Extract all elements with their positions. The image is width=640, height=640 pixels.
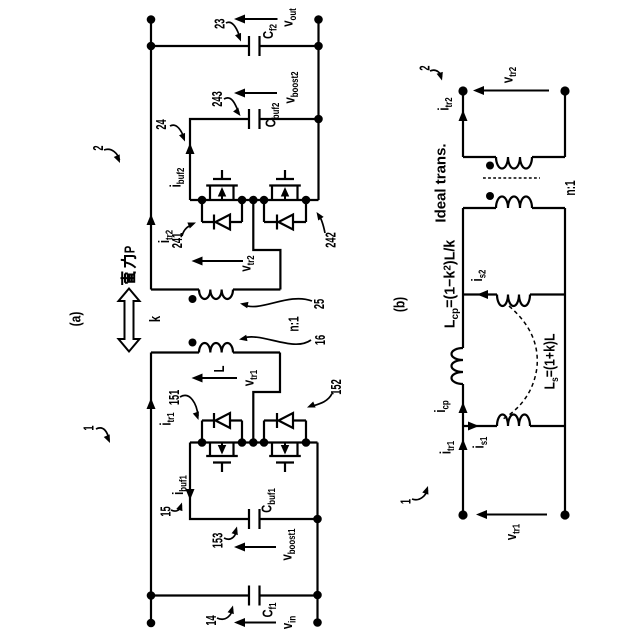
- svg-text:151: 151: [166, 390, 183, 406]
- svg-text:L: L: [210, 366, 227, 373]
- svg-text:n:1: n:1: [284, 316, 302, 331]
- svg-text:24: 24: [153, 119, 170, 129]
- svg-text:152: 152: [328, 379, 345, 395]
- svg-text:153: 153: [209, 533, 226, 549]
- svg-text:15: 15: [157, 506, 174, 516]
- svg-text:14: 14: [203, 615, 220, 625]
- svg-text:25: 25: [311, 299, 328, 309]
- svg-text:Ideal trans.: Ideal trans.: [433, 143, 450, 222]
- svg-text:1: 1: [397, 499, 414, 504]
- svg-text:n:1: n:1: [561, 180, 579, 195]
- svg-text:2: 2: [416, 65, 433, 70]
- svg-text:P: P: [121, 246, 138, 254]
- svg-text:2: 2: [90, 145, 107, 150]
- svg-text:16: 16: [312, 335, 329, 345]
- svg-text:(b): (b): [391, 297, 408, 312]
- svg-text:1: 1: [80, 425, 97, 430]
- svg-text:242: 242: [322, 232, 339, 248]
- svg-text:23: 23: [211, 18, 228, 28]
- svg-text:243: 243: [209, 91, 226, 107]
- svg-text:(a): (a): [67, 312, 84, 327]
- svg-text:k: k: [146, 315, 163, 322]
